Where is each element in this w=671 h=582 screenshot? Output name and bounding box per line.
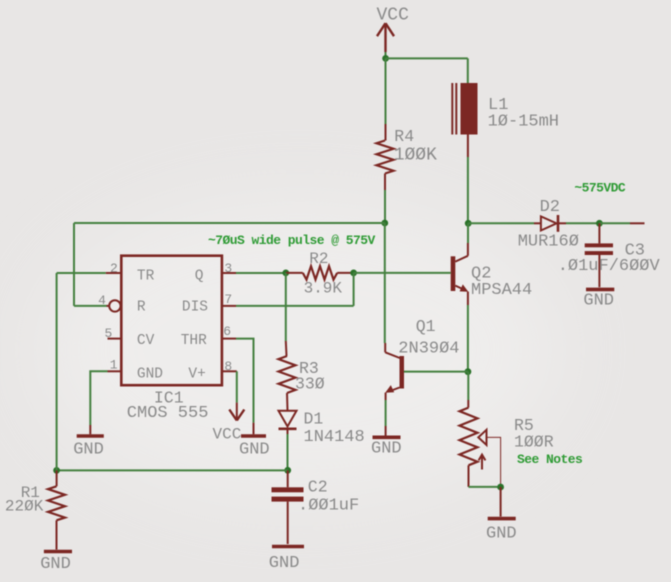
pin 7 stub bbox=[222, 305, 236, 307]
pin 1 stub bbox=[108, 370, 122, 372]
svg-text:VCC: VCC bbox=[213, 426, 242, 444]
diode D2 bbox=[534, 215, 566, 232]
svg-text:Q1: Q1 bbox=[416, 317, 436, 336]
pin 2 stub bbox=[106, 272, 122, 274]
svg-text:.ØØ1uF: .ØØ1uF bbox=[298, 497, 359, 516]
ground under pin6 bbox=[239, 423, 270, 460]
svg-text:1Ø-15mH: 1Ø-15mH bbox=[488, 113, 559, 132]
wire long horizontal pulse net bbox=[74, 222, 385, 224]
wire R2 left junction down to R3 bbox=[285, 273, 287, 341]
pin 3 stub bbox=[222, 272, 236, 274]
junction at Q1 base node bbox=[465, 368, 472, 375]
junction at collector node bbox=[465, 220, 472, 227]
svg-text:5: 5 bbox=[105, 326, 113, 341]
svg-text:GND: GND bbox=[137, 367, 163, 383]
svg-text:VCC: VCC bbox=[377, 6, 410, 26]
junction at VCC node bbox=[382, 55, 389, 62]
power VCC symbol (top) bbox=[377, 23, 394, 52]
svg-text:7: 7 bbox=[224, 292, 232, 307]
svg-text:THR: THR bbox=[181, 333, 207, 349]
resistor R4 bbox=[377, 58, 394, 223]
wire to pin2 bbox=[57, 272, 106, 274]
wire D1 to bottom rail bbox=[287, 434, 289, 470]
pin 6 stub bbox=[222, 338, 236, 340]
junction at R5 bottom bbox=[497, 484, 504, 491]
junction at R4 bottom bbox=[381, 220, 388, 227]
svg-text:GND: GND bbox=[371, 440, 402, 459]
wire pin1 to ground bbox=[90, 371, 107, 425]
transistor Q1 bbox=[385, 343, 404, 400]
diode D1 bbox=[279, 411, 297, 434]
wire to pin4 bbox=[74, 305, 107, 307]
svg-text:MPSA44: MPSA44 bbox=[471, 281, 532, 300]
svg-text:22ØK: 22ØK bbox=[5, 498, 44, 516]
pin 4 stub with inversion circle bbox=[107, 300, 121, 311]
ground under C3 bbox=[583, 289, 614, 310]
svg-text:GND: GND bbox=[486, 525, 517, 544]
wire D2 to C3 node bbox=[566, 222, 599, 224]
pin 5 stub bbox=[108, 338, 122, 340]
wire up to R2 right junction bbox=[353, 273, 355, 306]
svg-text:~575VDC: ~575VDC bbox=[574, 181, 626, 196]
pin 8 stub bbox=[222, 370, 237, 372]
svg-text:GND: GND bbox=[40, 555, 71, 574]
wire pin7 to R2 right bbox=[236, 305, 354, 307]
wire R5 bottom to junction bbox=[469, 486, 501, 488]
net stub output bbox=[630, 222, 645, 224]
svg-text:3: 3 bbox=[224, 261, 232, 276]
inductor L1 bbox=[452, 83, 477, 157]
ground under pin1 bbox=[73, 425, 104, 460]
resistor R2 bbox=[286, 266, 354, 279]
IC IC1 CMOS 555 body bbox=[121, 256, 222, 386]
wire down to L1 bbox=[467, 58, 469, 83]
svg-text:1ØØK: 1ØØK bbox=[394, 146, 437, 166]
svg-text:GND: GND bbox=[73, 441, 104, 460]
svg-text:DIS: DIS bbox=[182, 300, 208, 316]
svg-text:1ØØR: 1ØØR bbox=[514, 433, 554, 452]
svg-text:~7ØuS wide pulse @ 575V: ~7ØuS wide pulse @ 575V bbox=[208, 233, 376, 248]
wire R4 node down to Q1 collector bbox=[384, 223, 386, 343]
junction at R1 top bbox=[53, 467, 60, 474]
svg-text:6: 6 bbox=[223, 324, 231, 339]
wire L1 to collector node bbox=[467, 157, 469, 223]
junction at R2 right bbox=[350, 270, 357, 277]
svg-text:1: 1 bbox=[110, 358, 118, 373]
resistor R1 bbox=[48, 470, 65, 549]
wire Q1 emitter to ground bbox=[385, 400, 387, 426]
svg-text:GND: GND bbox=[583, 292, 614, 311]
wire VCC to junction bbox=[385, 52, 387, 58]
svg-text:D1: D1 bbox=[304, 410, 324, 429]
wire VCC node to L1 column bbox=[386, 57, 468, 59]
junction at R2 left bbox=[282, 270, 289, 277]
capacitor C2 bbox=[272, 470, 304, 544]
transistor Q2 bbox=[451, 243, 469, 305]
ground under C2 bbox=[269, 547, 304, 574]
wire Q2 emitter down bbox=[467, 305, 469, 372]
ground under R1 bbox=[40, 552, 72, 575]
svg-text:CV: CV bbox=[137, 333, 155, 349]
svg-text:Q: Q bbox=[195, 269, 204, 285]
svg-text:TR: TR bbox=[137, 269, 155, 285]
svg-text:R4: R4 bbox=[394, 127, 414, 146]
resistor R3 bbox=[279, 341, 296, 411]
wire pin6 to ground bbox=[236, 339, 254, 423]
junction at C2 node bbox=[284, 467, 291, 474]
junction at C3 node bbox=[596, 220, 603, 227]
trimmer R5 bbox=[460, 400, 501, 487]
svg-text:CMOS 555: CMOS 555 bbox=[127, 404, 209, 423]
wire pin8 to VCC arrow bbox=[236, 371, 238, 402]
svg-text:1N4148: 1N4148 bbox=[304, 428, 365, 447]
svg-text:R2: R2 bbox=[309, 250, 328, 268]
power VCC symbol (down arrow) bbox=[229, 403, 244, 421]
svg-text:2: 2 bbox=[110, 261, 118, 276]
wire R2 to Q2 base bbox=[354, 272, 451, 274]
ground under R5 bbox=[486, 487, 517, 544]
svg-text:4: 4 bbox=[98, 293, 106, 308]
wire collector node to D2 bbox=[468, 222, 534, 224]
svg-text:C2: C2 bbox=[308, 478, 328, 497]
wire left column down to pin4 bbox=[73, 223, 75, 306]
ground under Q1 bbox=[371, 426, 402, 459]
svg-text:GND: GND bbox=[239, 441, 270, 460]
wire bottom rail bbox=[57, 469, 288, 471]
wire Q1 base to node bbox=[404, 371, 468, 373]
svg-text:R: R bbox=[137, 300, 146, 316]
svg-text:MUR16Ø: MUR16Ø bbox=[518, 233, 579, 252]
wire junction to Q2 collector bbox=[467, 223, 469, 243]
wire pin3 to R2 bbox=[236, 272, 286, 274]
wire node to R5 bbox=[467, 372, 469, 400]
svg-text:.Ø1uF/6ØØV: .Ø1uF/6ØØV bbox=[558, 257, 661, 276]
svg-text:See Notes: See Notes bbox=[517, 452, 583, 467]
svg-text:D2: D2 bbox=[540, 198, 560, 217]
svg-text:3.9K: 3.9K bbox=[304, 280, 343, 298]
svg-text:GND: GND bbox=[269, 554, 300, 573]
capacitor C3 bbox=[585, 223, 613, 287]
wire C3 node to output stub bbox=[599, 222, 630, 224]
svg-text:2N39Ø4: 2N39Ø4 bbox=[398, 340, 459, 359]
wire left column TR net bbox=[56, 273, 58, 470]
svg-text:V+: V+ bbox=[188, 367, 205, 383]
svg-text:33Ø: 33Ø bbox=[295, 375, 325, 394]
